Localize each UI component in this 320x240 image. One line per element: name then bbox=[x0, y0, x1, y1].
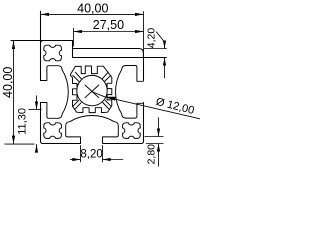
diameter leader bbox=[92, 92, 201, 119]
bar contact / surface line bbox=[73, 57, 167, 59]
clover BR bbox=[123, 123, 141, 139]
svg-text:8,20: 8,20 bbox=[80, 149, 102, 161]
svg-text:11,30: 11,30 bbox=[16, 108, 28, 135]
left 40,00 bbox=[1, 41, 34, 145]
central circle bbox=[77, 75, 107, 105]
11,30 bbox=[16, 96, 41, 153]
corner block right edge lower part bbox=[72, 49, 74, 58]
center core castellated square bbox=[70, 66, 112, 113]
clover BL bbox=[44, 123, 62, 139]
left edge upper bbox=[40, 11, 42, 80]
svg-text:27,50: 27,50 bbox=[93, 18, 124, 32]
svg-text:40,00: 40,00 bbox=[1, 67, 15, 98]
svg-text:40,00: 40,00 bbox=[77, 1, 108, 15]
svg-text:Ø 12,00: Ø 12,00 bbox=[154, 96, 195, 117]
center X mark bbox=[85, 85, 99, 98]
8,20 bbox=[70, 145, 123, 162]
left edge lower bbox=[41, 103, 44, 144]
diagonal wing channels bbox=[73, 72, 111, 109]
svg-text:2,80: 2,80 bbox=[146, 144, 158, 165]
2,80 bbox=[145, 118, 164, 167]
27,50 bbox=[74, 18, 144, 46]
profile outer outline: top-left corner block, cover bar, right edge upper part bbox=[11, 41, 144, 81]
left slot bbox=[41, 66, 69, 119]
bottom edge and right edge lower part bbox=[43, 103, 144, 144]
svg-text:4,20: 4,20 bbox=[146, 28, 158, 49]
clover TL bbox=[44, 45, 62, 61]
top 40,00 bbox=[41, 1, 144, 56]
right slot bbox=[116, 66, 144, 119]
4,20 bbox=[144, 28, 167, 78]
bottom slot bbox=[66, 116, 119, 144]
